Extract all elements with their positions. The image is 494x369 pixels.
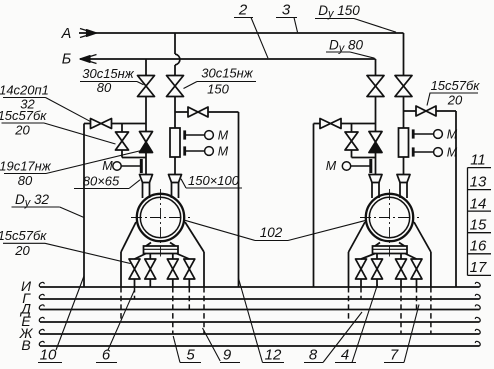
fan line to valve 3 (right) [400,254,402,288]
manifold valve 2 (left pump) [145,259,156,279]
check valve 19s17nzh-80 on pipe 1 [140,132,153,153]
svg-text:16: 16 [470,238,487,255]
valve 30s15nzh-150 (right pump) [395,76,412,97]
flow meter bypass valve (left pump) [188,107,208,117]
collector Г [22,290,480,306]
label 30s15nzh 80 leader [80,66,144,95]
position number 16 [468,238,492,255]
label 14s20p1 32 leader [0,83,91,122]
svg-text:13: 13 [470,174,487,191]
flow meter gauge M lower [185,144,229,158]
flow meter bypass valve 15s57bk-20 (right) [416,106,436,116]
svg-text:9: 9 [223,347,232,364]
svg-text:17: 17 [470,259,487,276]
svg-text:10: 10 [40,347,57,364]
valve 30s15nzh-80 on pipe 1 [138,76,155,97]
svg-text:150: 150 [207,82,229,97]
svg-text:11: 11 [470,151,486,168]
check valve 19s17nzh-80 (right) [369,132,382,153]
label Dy32 leader [12,192,85,218]
drop to collector E (x348.5) [348,287,350,322]
reducer 150x100 [169,175,182,183]
svg-text:30с15нж: 30с15нж [82,66,135,81]
svg-text:20: 20 [447,93,463,108]
flow arrow on line A [80,29,97,38]
fan line to valve 2 (right) [376,254,378,288]
svg-text:150×100: 150×100 [188,173,240,188]
svg-text:14с20п1: 14с20п1 [0,83,49,98]
pressure gauge M (right pump) [326,159,371,173]
svg-text:4: 4 [341,347,349,364]
label 4 leader -> right manifold valve 2 [335,285,378,364]
drain line Dy32 (right) [313,124,315,288]
svg-text:Б: Б [62,52,71,68]
label 19s17nzh 80 leader (check valve) [0,150,144,188]
svg-text:15с57бк: 15с57бк [0,228,47,243]
pipe 1 (from line B, Dy80) [145,59,147,175]
svg-text:19с17нж: 19с17нж [0,159,52,174]
svg-text:20: 20 [14,123,30,138]
manifold valve 4 (left pump) [184,259,195,279]
position number 17 [468,259,492,276]
label 15s57bk 20 leader (top right) [427,78,480,108]
collector Ж [19,325,481,341]
label 8 leader -> right manifold line [304,312,362,364]
fan line outer-left (right pump) [349,222,366,287]
label 6 leader -> manifold valve 1 line [96,290,135,364]
svg-text:5: 5 [186,347,195,364]
fan line to valve 3 [172,254,174,288]
drop to collector E (x121) [120,287,122,322]
flow meter bypass line (right) [404,110,457,112]
manifold valve 3 (left pump) [167,259,178,279]
fan line to valve 4 [177,254,190,288]
position number 11 [468,151,492,168]
svg-text:6: 6 [102,347,111,364]
flow meter gauge M upper [185,128,229,142]
fan line to valve 1 [135,254,147,288]
position number 13 [468,174,492,191]
label 2 leader -> line B [234,2,268,59]
label Dy80 leader -> line B [326,38,375,59]
pipe 2' (from line A, right pump) [403,97,405,175]
pressure gauge M on pipe 1 [102,159,141,173]
svg-text:А: А [61,26,72,42]
label 10 leader -> left drain line [38,276,84,364]
valve 14s20p1 (horizontal) [91,119,112,129]
standby line (right of left pump) [238,112,240,287]
svg-text:2: 2 [238,2,248,19]
svg-text:80×65: 80×65 [83,174,120,189]
svg-text:Dу 32: Dу 32 [15,192,50,209]
fan line outer-right (left pump) [185,222,204,287]
manifold valve 4 (right pump) [411,259,422,279]
collector Д [19,301,480,317]
fan line to valve 2 [149,254,151,288]
valve 14s20p1 (right, horizontal) [320,119,341,129]
pump 102 (right) [360,189,419,257]
svg-text:15: 15 [470,216,487,233]
drop to collector D (x189.3) [188,287,190,310]
label 7 leader -> right manifold valve 4 [384,305,419,364]
position numbers bracket [467,168,469,276]
manifold valve 3 (right pump) [396,259,407,279]
label 102 leaders to both pumps [185,220,366,240]
node A label [61,26,72,42]
svg-text:М: М [326,159,337,173]
valve 15s57bk-20 (right bypass) [345,132,358,150]
svg-text:12: 12 [265,347,282,364]
reducer 80x65 (right) [369,175,382,183]
drop to collector G (x361) [360,287,362,299]
manifold valve 1 (right pump) [356,259,367,279]
drop to collector Zh (x401) [400,287,402,334]
label 150x100 leader [181,173,242,188]
svg-text:8: 8 [309,347,318,364]
valve 30s15nzh-80 (right pump) [367,76,384,97]
flow arrow on line B [80,55,97,64]
orifice flow meter (right) [399,128,409,157]
fan line outer-right (right pump) [414,222,431,287]
flow meter gauge M lower (right) [413,145,458,159]
pump 102 (left) [131,189,190,257]
label 9 leader -> outer fan line [203,328,241,364]
bypass line around check valve (right) [314,124,376,158]
orifice flow meter on pipe 2 [170,128,180,157]
drain line Dy32 (left) [83,124,85,288]
pump 2 discharge nozzle [400,183,407,199]
svg-text:М: М [218,128,229,142]
reducer 150x100 (right) [397,175,410,183]
svg-text:14: 14 [470,195,487,212]
manifold valve 1 (left pump) [129,259,140,279]
svg-text:80: 80 [18,173,33,188]
fan line outer-left (left pump) [121,222,136,287]
pipe line A (Dy150 header) [79,33,404,76]
label 15s57bk 20 leader (bypass valve) [0,108,116,144]
svg-text:80: 80 [97,80,112,95]
svg-text:15с57бк: 15с57бк [431,78,481,93]
drop to collector D (x416.5) [416,287,418,310]
svg-text:М: М [218,144,229,158]
label 5 leader -> collector Zh tap [173,336,201,364]
fan line to valve 1 (right) [361,254,375,288]
fan line to valve 4 (right) [405,254,417,288]
pump 1 suction nozzle [143,183,150,199]
svg-text:Dу 150: Dу 150 [318,3,360,20]
position number 14 [468,195,492,212]
drop to collector G (x134.5) [134,287,136,299]
drop to collector Zh (x204) [203,287,205,334]
drop to collector Zh (x172.8) [172,287,174,334]
flow meter gauge M upper (right) [413,127,458,141]
svg-text:15с57бк: 15с57бк [0,108,47,123]
position number 15 [468,216,492,233]
svg-text:102: 102 [260,225,283,240]
label 12 leader -> right pump drain [238,278,284,364]
standby line (right of right pump) [455,111,457,287]
label 15s57bk 20 leader (manifold valves) [0,228,131,264]
label 80x65 leader [74,174,140,189]
reducer 80x65 [140,175,153,183]
flow meter bypass line [175,111,239,113]
svg-text:30с15нж: 30с15нж [201,66,254,81]
collector И [21,278,480,294]
svg-text:7: 7 [390,347,399,364]
manifold valve 2 (right pump) [372,259,383,279]
svg-text:20: 20 [14,243,30,258]
drop to collector Zh (x430.9) [430,287,432,334]
svg-text:3: 3 [282,2,291,19]
label Dy150 leader -> line A [315,3,396,32]
collector Е [21,313,480,329]
valve 15s57bk-20 (bypass) [116,132,129,150]
svg-text:В: В [21,337,30,353]
pump 2 suction nozzle [372,183,379,199]
pipe line B (Dy80 header) [80,59,376,76]
svg-text:М: М [102,159,113,173]
collector В [21,337,480,353]
pump 1 discharge nozzle [172,183,179,199]
pump 2 pedestal [373,243,408,254]
label 3 leader -> line A [276,2,298,33]
pump 1 pedestal [144,243,179,254]
valve 30s15nzh-150 on pipe 2 [167,76,184,97]
node B label [62,52,71,68]
pipe 1' (from line B, right pump) [375,97,377,175]
bypass line around check valve [84,124,146,158]
label 30s15nzh 150 leader [184,66,257,97]
pipe 2 (from line A, Dy150) [175,33,180,175]
